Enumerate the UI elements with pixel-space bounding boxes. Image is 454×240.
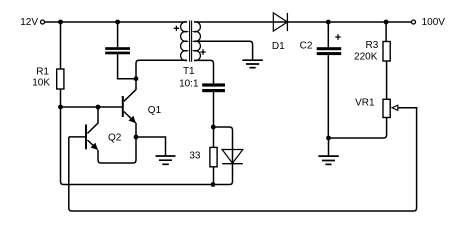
wire cap C1 bottom lead bbox=[118, 54, 136, 78]
wire secondary center tap to ground bbox=[194, 41, 253, 60]
wire rail down to R1 bbox=[60, 22, 62, 69]
plus secondary bbox=[200, 49, 205, 54]
node junction at 60.5,22 bbox=[58, 20, 63, 25]
svg-text:R1: R1 bbox=[36, 67, 49, 78]
wire secondary bottom lead to cap bbox=[194, 60, 214, 83]
wire cap to node bbox=[213, 92, 215, 127]
svg-text:33: 33 bbox=[189, 151, 201, 162]
wire to ground bbox=[328, 138, 330, 156]
wire cap C1 top lead bbox=[117, 22, 119, 47]
wire node to resistor 33 bbox=[213, 127, 215, 147]
capacitor C1 bbox=[105, 47, 130, 50]
svg-text:T1: T1 bbox=[183, 66, 195, 77]
node junction at 117.6,22 bbox=[115, 20, 120, 25]
plus C2 bbox=[335, 34, 340, 39]
svg-text:Q1: Q1 bbox=[148, 105, 162, 116]
wire R3 to VR1 bbox=[386, 61, 388, 99]
wire left rail down and feedback line to zener bbox=[61, 107, 233, 185]
svg-text:12V: 12V bbox=[20, 17, 38, 28]
node junction Q2 collector at 98,107 bbox=[96, 105, 101, 110]
capacitor C2 bbox=[317, 47, 342, 50]
resistor R1 bbox=[57, 69, 64, 89]
transistor Q1 bbox=[124, 79, 136, 102]
resistor 33 bbox=[210, 147, 217, 166]
node junction at 213,184.5 bbox=[211, 182, 216, 187]
node junction R3 at 386.1,22 bbox=[384, 20, 389, 25]
wiper arrow VR1 bbox=[392, 105, 398, 110]
svg-text:VR1: VR1 bbox=[355, 98, 375, 109]
ground center tap bbox=[242, 60, 262, 67]
svg-text:220K: 220K bbox=[354, 52, 378, 63]
wire R3 top lead bbox=[385, 22, 387, 42]
resistor R3 bbox=[383, 42, 390, 62]
svg-text:10:1: 10:1 bbox=[179, 79, 199, 90]
node junction at 60.5,107 bbox=[58, 105, 63, 110]
wire resistor 33 bottom bbox=[213, 167, 215, 185]
ground Q1/Q2 emitter bbox=[156, 156, 176, 164]
zener diode bbox=[222, 150, 243, 164]
terminal 12V input bbox=[41, 20, 45, 24]
transistor Q2 bbox=[87, 107, 98, 133]
svg-text:Q2: Q2 bbox=[108, 133, 122, 144]
node junction at 213.5,127 bbox=[211, 125, 216, 130]
svg-text:R3: R3 bbox=[366, 40, 379, 51]
wire D1 to output bbox=[272, 21, 411, 23]
terminal 100V output bbox=[412, 20, 416, 24]
node junction C2 at 328.3,22 bbox=[326, 20, 331, 25]
transformer T1 bbox=[181, 22, 187, 61]
wire node to zener anode bbox=[214, 127, 233, 164]
ground C2 bbox=[318, 156, 338, 164]
potentiometer VR1 bbox=[383, 99, 390, 117]
plus primary bbox=[174, 26, 179, 31]
svg-text:D1: D1 bbox=[272, 41, 285, 52]
wire primary bottom lead bbox=[136, 60, 187, 78]
svg-text:C2: C2 bbox=[300, 40, 313, 51]
wire secondary top to D1 bbox=[194, 21, 272, 23]
wire VR1 bottom to ground node bbox=[329, 118, 387, 139]
wire Q1 base line bbox=[61, 106, 123, 108]
svg-text:10K: 10K bbox=[32, 77, 50, 88]
diode D1 bbox=[273, 13, 287, 31]
wire Q2 base lead bbox=[69, 136, 86, 138]
wire top-left rail bbox=[45, 21, 187, 23]
svg-text:100V: 100V bbox=[422, 17, 446, 28]
node junction at 136,78.7 bbox=[134, 76, 139, 81]
wire feedback from VR1 wiper to Q2 base bbox=[69, 108, 417, 211]
wire C2 top lead bbox=[327, 22, 329, 47]
node junction emitters at 136,137 bbox=[134, 135, 139, 140]
capacitor secondary bbox=[202, 83, 225, 86]
node junction at 328.3,138 bbox=[326, 136, 331, 141]
wire R1 bottom to base node bbox=[60, 89, 62, 107]
wire C2 bottom lead bbox=[327, 55, 329, 138]
wire emitter to ground bbox=[136, 137, 166, 156]
